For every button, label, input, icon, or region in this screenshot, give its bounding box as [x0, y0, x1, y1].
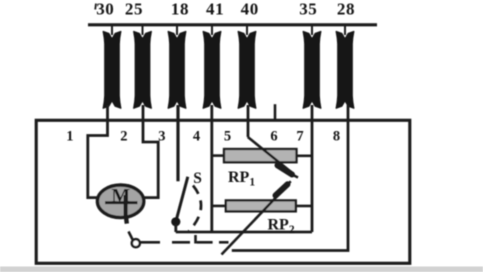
connector terminal 28 [336, 26, 354, 108]
RP2 right stub [296, 205, 312, 208]
scan band bottom [0, 267, 483, 272]
RP2 wiper arrow [222, 188, 286, 255]
bottom rail wire (pivot to inner box) [176, 231, 312, 234]
svg-text:35: 35 [299, 0, 317, 19]
inner left vertical wire (pin 41) [210, 105, 213, 232]
svg-text:RP1: RP1 [228, 169, 255, 189]
switch pivot drop wire [174, 224, 177, 232]
svg-text:4: 4 [193, 129, 200, 145]
pin 6 stub wire [274, 104, 277, 121]
actuator box outline [36, 120, 410, 263]
RP1 left stub [212, 154, 224, 157]
potentiometer RP2 body [226, 200, 296, 211]
stray tick mark [94, 4, 97, 10]
motor M1 body [97, 185, 143, 218]
RP1 wiper arrow [248, 137, 293, 174]
svg-text:2: 2 [120, 129, 127, 145]
wire pin30 to motor left [88, 105, 108, 198]
svg-text:30: 30 [96, 0, 114, 19]
switch S pivot [171, 217, 180, 226]
connector terminal 41 [203, 26, 221, 108]
connector terminal 30 [103, 26, 121, 108]
svg-text:5: 5 [224, 129, 231, 145]
motor strike line [105, 201, 138, 204]
connector terminal 18 [168, 26, 186, 108]
wire pin28 to RP2 wiper [232, 105, 348, 251]
svg-text:S: S [193, 170, 202, 187]
svg-text:28: 28 [337, 0, 355, 19]
svg-text:8: 8 [333, 129, 340, 145]
svg-text:1: 1 [66, 129, 73, 145]
top bus wire [88, 23, 377, 26]
motor shaft arrow [124, 195, 128, 218]
switch S lever [176, 177, 188, 222]
connector terminal 25 [134, 26, 152, 108]
connector terminal 40 [238, 26, 256, 108]
inner right vertical wire (pin 35) [311, 105, 314, 232]
switch dashed travel arc [189, 186, 201, 232]
wire pin18 to switch contact [176, 105, 179, 181]
svg-text:7: 7 [296, 129, 303, 145]
RP1 wiper wire from pin 40 [247, 105, 250, 137]
svg-text:40: 40 [241, 0, 259, 19]
wire from contact circle [141, 241, 161, 244]
potentiometer RP1 body [224, 149, 297, 162]
svg-text:18: 18 [171, 0, 189, 19]
svg-text:41: 41 [206, 0, 224, 19]
RP1 right stub [297, 155, 313, 158]
connector terminal 35 [303, 26, 321, 108]
contact circle tail [129, 232, 133, 241]
RP2 left stub [212, 205, 226, 208]
svg-text:25: 25 [125, 0, 143, 19]
dashed coupling line [172, 241, 190, 244]
svg-text:6: 6 [270, 129, 277, 145]
svg-text:RP2: RP2 [268, 217, 295, 237]
wire pin25 to motor right [143, 105, 158, 198]
contact circle below motor [132, 239, 140, 247]
